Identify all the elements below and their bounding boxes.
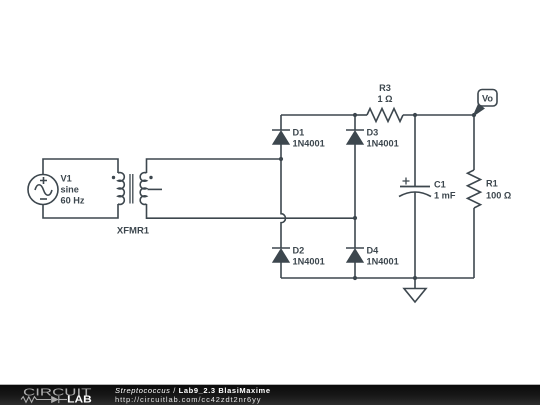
node bottom D4 junction: [353, 276, 357, 280]
svg-text:D2: D2: [293, 246, 305, 256]
wire top rail D1 to D3: [281, 114, 355, 116]
CircuitLab logo doodle: [21, 396, 67, 403]
svg-text:D3: D3: [367, 128, 379, 138]
diode D1: [272, 130, 290, 144]
label V1 value: [61, 174, 85, 206]
footer bar: [0, 385, 540, 405]
transformer XFMR1 secondary winding: [140, 173, 146, 205]
svg-text:http://circuitlab.com/cc42zdt2: http://circuitlab.com/cc42zdt2nr6yy: [115, 395, 261, 404]
wire C1 bottom lead: [414, 193, 416, 279]
node top junction at D3: [353, 113, 357, 117]
svg-text:1 Ω: 1 Ω: [377, 94, 392, 104]
svg-text:D4: D4: [367, 246, 380, 256]
wire D1 anode to node A: [280, 144, 282, 159]
wire secondary top to node A: [147, 159, 282, 173]
svg-text:sine: sine: [61, 185, 79, 195]
wire R3 to node Vo: [403, 114, 474, 116]
label R3: [377, 83, 392, 104]
diode D3: [346, 130, 364, 144]
wire V1 top to primary top: [43, 159, 118, 175]
label R1: [486, 179, 511, 201]
svg-text:Vo: Vo: [482, 94, 493, 104]
label D3: [367, 128, 399, 149]
Vo flag box: [478, 90, 497, 107]
svg-text:XFMR1: XFMR1: [117, 226, 150, 237]
C1 plus sign: [403, 178, 410, 185]
svg-text:60 Hz: 60 Hz: [61, 196, 85, 206]
wire V1 bottom to primary bottom: [43, 204, 118, 218]
primary phase dot: [112, 176, 115, 179]
wire D3 anode to D4 cathode: [354, 144, 356, 248]
svg-text:D1: D1: [293, 128, 305, 138]
svg-text:1N4001: 1N4001: [293, 139, 325, 149]
node ground junction: [413, 276, 417, 280]
wire bottom rail: [281, 277, 474, 279]
svg-text:1 mF: 1 mF: [434, 191, 456, 201]
resistor R3: [367, 109, 403, 122]
Vo flag pointer: [474, 105, 484, 116]
wire top of right rail: [354, 115, 356, 130]
svg-text:R3: R3: [379, 83, 391, 93]
svg-text:1N4001: 1N4001: [293, 257, 325, 267]
transformer core: [130, 174, 133, 204]
label D1: [293, 128, 325, 149]
node Vo junction: [472, 113, 476, 117]
resistor R1: [468, 170, 481, 208]
transformer XFMR1 primary winding: [118, 173, 124, 205]
wire D2 anode to bottom rail: [280, 262, 282, 278]
svg-text:100 Ω: 100 Ω: [486, 191, 511, 201]
diode D4: [346, 248, 364, 262]
wire Vo to R1 top: [473, 115, 475, 170]
svg-text:1N4001: 1N4001: [367, 139, 399, 149]
node C1 top junction: [413, 113, 417, 117]
svg-text:1N4001: 1N4001: [367, 257, 399, 267]
wire D4 anode to bottom rail: [354, 262, 356, 278]
label D2: [293, 246, 325, 267]
node A junction: [279, 157, 283, 161]
wire secondary bottom to node B: [147, 204, 356, 218]
capacitor C1: [399, 187, 431, 197]
secondary center tap stub: [148, 188, 163, 190]
secondary phase dot: [149, 176, 152, 179]
svg-text:C1: C1: [434, 180, 446, 190]
svg-text:V1: V1: [61, 174, 72, 184]
svg-text:R1: R1: [486, 179, 498, 189]
wire R1 bottom lead: [473, 208, 475, 278]
wire top junction to R3: [355, 114, 367, 116]
node B junction: [353, 216, 357, 220]
label C1: [434, 180, 456, 201]
label D4: [367, 246, 399, 267]
voltage source V1: [28, 175, 58, 205]
wire top of left rail: [280, 115, 282, 130]
ground stub: [414, 278, 416, 289]
ground symbol: [404, 289, 426, 303]
svg-text:LAB: LAB: [67, 395, 92, 405]
wire C1 top lead: [414, 115, 416, 187]
diode D2: [272, 248, 290, 262]
svg-text:Streptococcus / Lab9_2.3 Blasi: Streptococcus / Lab9_2.3 BlasiMaxime: [115, 386, 270, 395]
wire node A to D2 cathode with hop over secondary wire: [281, 159, 286, 248]
